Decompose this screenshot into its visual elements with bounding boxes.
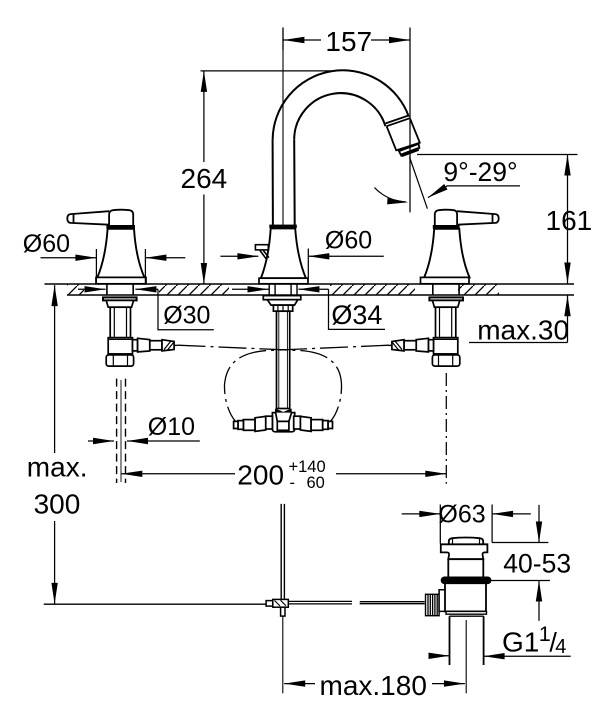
right handle body xyxy=(424,229,469,278)
dim 157 xyxy=(283,28,410,213)
right handle base plate xyxy=(421,277,470,283)
left handle band xyxy=(106,225,135,229)
dim 40-53 xyxy=(490,505,550,621)
rod lower wire xyxy=(282,616,284,693)
spout ring xyxy=(269,225,297,229)
spout body cone xyxy=(261,228,306,278)
left valve under deck xyxy=(103,284,177,366)
dim Ø63 xyxy=(402,505,531,544)
svg-text:157: 157 xyxy=(325,26,372,57)
left handle body xyxy=(97,229,144,278)
T-fitting at shank bottom xyxy=(234,409,333,432)
left handle cap xyxy=(109,210,133,225)
svg-text:9°-29°: 9°-29° xyxy=(443,157,517,187)
dim Ø60 left handle xyxy=(41,249,186,284)
aerator outlet xyxy=(386,115,420,155)
dim max.30 xyxy=(469,295,568,342)
dim Ø34 xyxy=(232,289,385,329)
svg-text:-: - xyxy=(290,474,296,492)
svg-text:40-53: 40-53 xyxy=(503,548,571,578)
dim Ø30 xyxy=(78,289,214,330)
dim Ø10 xyxy=(88,440,200,442)
dim 200 +140 -60 xyxy=(121,373,446,484)
right handle cap xyxy=(435,210,457,225)
center shank under deck xyxy=(263,284,301,409)
svg-text:Ø63: Ø63 xyxy=(438,501,485,529)
right handle band xyxy=(433,225,460,229)
horizontal rod right (with break) xyxy=(288,601,424,604)
left handle lever xyxy=(67,211,109,225)
rod clamp xyxy=(266,599,288,616)
angle annotation 9-29 xyxy=(410,157,428,209)
drain knurled knob xyxy=(426,590,451,616)
right handle lever xyxy=(457,211,499,225)
svg-text:264: 264 xyxy=(181,163,228,194)
svg-text:G1: G1 xyxy=(502,627,539,658)
deck hatched countertop xyxy=(45,284,575,296)
left handle base plate xyxy=(96,277,146,283)
pull rod vertical xyxy=(281,504,284,600)
dim 264 xyxy=(201,71,332,284)
dim 161 xyxy=(417,155,578,284)
flexible hose lines (dash-dot) xyxy=(178,345,390,421)
dim max.300 xyxy=(54,285,56,604)
svg-text:max.: max. xyxy=(27,451,88,482)
svg-text:60: 60 xyxy=(307,474,325,492)
spout gooseneck xyxy=(273,70,409,225)
drain pop-up waste assembly xyxy=(441,538,491,666)
svg-text:Ø34: Ø34 xyxy=(331,300,382,330)
dim Ø60 center xyxy=(220,249,383,279)
pop-up rod dashed (below left valve) xyxy=(117,379,126,483)
svg-text:max.30: max.30 xyxy=(477,314,569,345)
dim max.180 xyxy=(284,683,465,685)
spout base plate xyxy=(259,278,308,284)
svg-text:4: 4 xyxy=(555,636,566,658)
centerline faucet axis xyxy=(282,28,284,226)
svg-text:Ø10: Ø10 xyxy=(148,413,195,441)
horizontal rod left xyxy=(44,603,266,605)
dim G1 1/4 xyxy=(431,655,571,657)
svg-text:Ø60: Ø60 xyxy=(23,230,70,258)
svg-text:Ø30: Ø30 xyxy=(163,301,210,329)
right valve under deck (mirror) xyxy=(389,284,463,366)
svg-text:max.180: max.180 xyxy=(320,670,427,701)
pop-up rod lever xyxy=(255,245,269,260)
svg-text:300: 300 xyxy=(34,488,81,519)
svg-text:Ø60: Ø60 xyxy=(325,227,372,255)
svg-text:200: 200 xyxy=(237,459,284,490)
svg-text:161: 161 xyxy=(546,205,593,236)
drain centerline xyxy=(465,620,467,693)
